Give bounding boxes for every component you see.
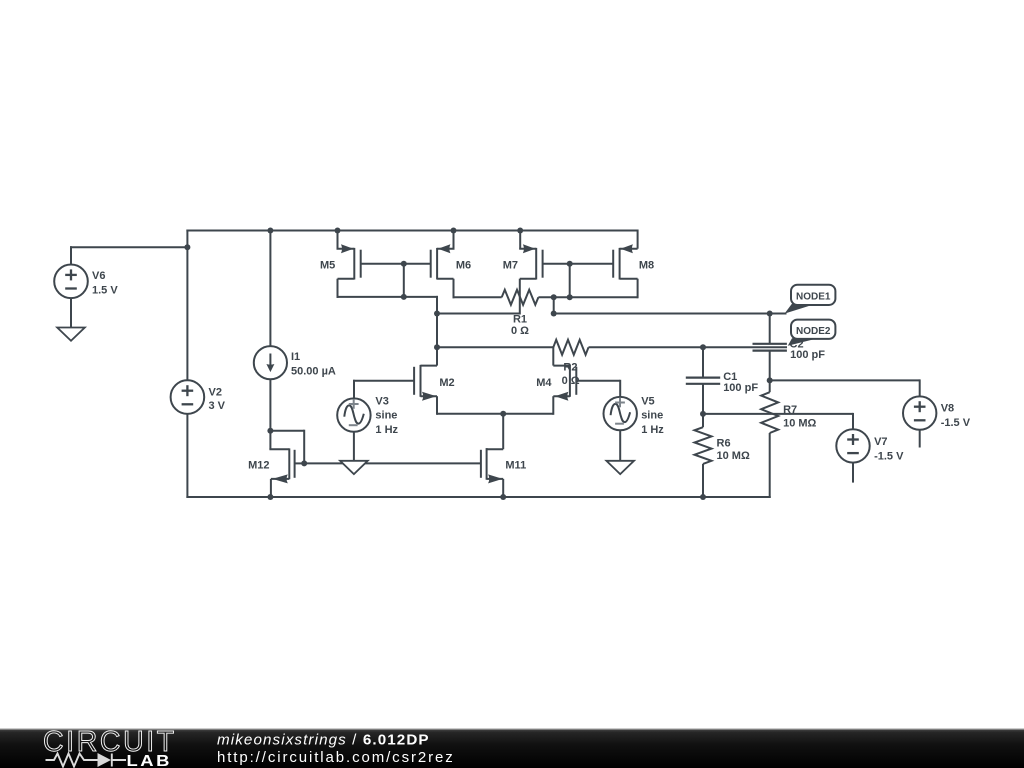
- transistor M7 source arrow: [523, 244, 535, 253]
- wire top supply rail: [186, 230, 637, 232]
- svg-text:M5: M5: [320, 260, 335, 272]
- svg-text:M4: M4: [536, 377, 552, 389]
- wire M12 drain-gate link horizontal: [270, 430, 304, 432]
- voltage source V6 1.5 V: [54, 265, 88, 299]
- svg-text:M8: M8: [639, 260, 654, 272]
- node NODE1 flag: [791, 285, 835, 305]
- transistor M8 source lead: [637, 230, 639, 249]
- transistor M2 source lead: [421, 395, 438, 397]
- logo resistor-diode glyph: [46, 754, 127, 767]
- wire M5 drain to trunk: [337, 296, 439, 298]
- junction M11 source on rail: [500, 494, 506, 500]
- svg-text:V5: V5: [641, 396, 654, 408]
- capacitor C2 bottom lead: [769, 351, 771, 381]
- wire I1 top: [269, 231, 271, 347]
- transistor M2 source arrow: [422, 392, 436, 401]
- junction trunk lower: [434, 344, 440, 350]
- transistor M8 gate bar: [612, 250, 614, 278]
- wire M2/M4 sources to M11: [437, 413, 553, 415]
- footer bar: [0, 729, 1024, 768]
- transistor M8 drain lead: [620, 278, 638, 280]
- transistor M11 drain lead: [502, 413, 504, 449]
- wire M7/M8 gate link: [543, 263, 614, 265]
- capacitor C2 100 pF: [753, 343, 787, 345]
- transistor M4 gate bar: [575, 367, 577, 395]
- svg-text:100 pF: 100 pF: [790, 349, 825, 361]
- transistor M4 drain lead: [552, 346, 554, 365]
- capacitor C1 top lead: [702, 347, 704, 377]
- wire R6/C1 node to V7+: [703, 413, 853, 415]
- ground below V5: [606, 461, 634, 474]
- svg-text:sine: sine: [375, 410, 397, 422]
- voltage source V2 3 V: [171, 380, 205, 414]
- svg-text:0 Ω: 0 Ω: [511, 325, 529, 337]
- wire M5/M6 gate link: [361, 263, 431, 265]
- transistor M5 source lead: [337, 231, 339, 249]
- svg-text:R1: R1: [513, 314, 527, 326]
- transistor M12 channel bar: [288, 448, 290, 479]
- svg-text:V7: V7: [874, 436, 887, 448]
- wire gate tie vertical: [403, 264, 405, 297]
- wire I1 bottom: [269, 379, 271, 430]
- svg-text:M6: M6: [456, 260, 471, 272]
- svg-text:10 MΩ: 10 MΩ: [717, 450, 750, 462]
- wire V2- down to bottom rail: [186, 414, 188, 498]
- junction R1 right node A: [551, 294, 557, 300]
- transistor M7 source lead: [519, 231, 521, 249]
- transistor M11 source arrow: [488, 474, 503, 483]
- transistor M12 source arrow: [272, 474, 287, 483]
- svg-text:R6: R6: [717, 437, 731, 449]
- svg-text:V2: V2: [209, 386, 222, 398]
- wire trunk to R2: [437, 346, 553, 348]
- transistor M11 source lead: [487, 478, 504, 480]
- wire M12 drain-gate link vertical: [303, 430, 305, 464]
- wire R7 top node to V8+: [770, 379, 920, 381]
- svg-text:NODE1: NODE1: [796, 292, 831, 303]
- junction M7 source on rail: [517, 228, 523, 234]
- node NODE2 flag: [791, 320, 835, 339]
- svg-text:-1.5 V: -1.5 V: [941, 417, 971, 429]
- wire V8 top vertical: [919, 379, 921, 396]
- resistor R2 0 Ohm: [553, 340, 588, 355]
- junction M12 gate wire: [301, 460, 307, 466]
- junction R6 top: [700, 411, 706, 417]
- resistor R1 0 Ohm: [502, 290, 539, 305]
- wire V6- to ground: [70, 298, 72, 327]
- transistor M2 channel bar: [420, 365, 422, 397]
- resistor R6 10 MOhm: [695, 427, 712, 464]
- svg-text:mikeonsixstrings / 6.012DP: mikeonsixstrings / 6.012DP: [217, 732, 430, 749]
- node NODE2 pointer: [788, 338, 814, 346]
- resistor R7 bottom lead: [769, 433, 771, 498]
- svg-text:R2: R2: [563, 361, 577, 373]
- junction R6 bottom on rail: [700, 494, 706, 500]
- svg-text:3 V: 3 V: [209, 400, 226, 412]
- junction M12 source on rail: [267, 494, 273, 500]
- svg-text:I1: I1: [291, 351, 300, 363]
- svg-text:1 Hz: 1 Hz: [641, 424, 664, 436]
- svg-text:NODE2: NODE2: [796, 326, 831, 337]
- svg-text:M12: M12: [248, 460, 269, 472]
- current source I1 50.00 uA: [254, 346, 287, 379]
- svg-text:http://circuitlab.com/csr2rez: http://circuitlab.com/csr2rez: [217, 749, 455, 766]
- wire V7- stub: [852, 463, 854, 483]
- transistor M8 channel bar: [619, 248, 621, 280]
- transistor M4 source lead: [553, 395, 570, 397]
- wire V6 top stub: [70, 246, 72, 264]
- capacitor C2 top lead: [769, 314, 771, 344]
- junction R1 right node B: [567, 294, 573, 300]
- junction M5 gate-drain tie: [401, 261, 407, 267]
- resistor R7 top lead: [769, 380, 771, 392]
- svg-text:50.00 µA: 50.00 µA: [291, 365, 336, 377]
- junction M5 source on rail: [335, 228, 341, 234]
- wire M2/M7 drain node: [437, 313, 520, 315]
- transistor M6 drain lead: [437, 278, 453, 280]
- junction NODE1 wire left: [551, 311, 557, 317]
- node NODE1 pointer: [785, 303, 815, 313]
- wire M2 gate to V3+: [353, 380, 355, 399]
- transistor M2 drain lead: [421, 365, 438, 367]
- voltage source V7 -1.5 V: [836, 429, 869, 462]
- svg-text:LAB: LAB: [127, 751, 172, 768]
- junction V6/V2 rail: [184, 244, 190, 250]
- wire node vertical R1-to-NODE1 wire: [553, 297, 555, 313]
- transistor M6 source arrow: [438, 244, 450, 253]
- wire NODE1 net: [554, 313, 787, 315]
- svg-text:sine: sine: [641, 410, 663, 422]
- transistor M11 channel bar: [486, 448, 488, 480]
- wire left rail from top rail down to V2+: [186, 230, 188, 381]
- junction M11 drain: [500, 411, 506, 417]
- junction on M5 drain wire: [401, 294, 407, 300]
- svg-text:C1: C1: [723, 371, 737, 383]
- voltage source V3 sine: [337, 398, 370, 431]
- wire gate tie vertical to R1 node: [569, 264, 571, 298]
- transistor M11 gate bar: [480, 450, 482, 478]
- junction I1/M12 drain: [267, 428, 273, 434]
- svg-text:1.5 V: 1.5 V: [92, 285, 118, 297]
- wire M4 gate to V5+: [619, 380, 621, 397]
- transistor M5 gate bar: [360, 250, 362, 278]
- junction I1 top on rail: [267, 228, 273, 234]
- voltage source V8 -1.5 V: [903, 396, 936, 429]
- wire V7 top vertical: [852, 413, 854, 429]
- wire R1 right to M8 drain: [538, 296, 637, 298]
- svg-text:0 Ω: 0 Ω: [562, 375, 580, 387]
- svg-text:1 Hz: 1 Hz: [375, 424, 398, 436]
- ground below V6: [57, 328, 85, 341]
- wire gate bias M12 to M11: [304, 462, 481, 464]
- transistor M4 channel bar: [569, 365, 571, 397]
- junction trunk upper: [434, 311, 440, 317]
- svg-text:-1.5 V: -1.5 V: [874, 450, 904, 462]
- ground below V3: [340, 461, 368, 474]
- transistor M6 channel bar: [436, 248, 438, 280]
- junction R7 top: [767, 377, 773, 383]
- svg-text:V3: V3: [375, 396, 388, 408]
- wire R2 right to C2: [589, 346, 788, 348]
- transistor M7 channel bar: [535, 248, 537, 280]
- wire V5- to ground: [619, 430, 621, 461]
- resistor R6 top lead: [702, 414, 704, 427]
- transistor M7 drain lead: [520, 278, 536, 280]
- transistor M4 source arrow: [555, 392, 569, 401]
- junction M7/M8 gate tie: [567, 261, 573, 267]
- wire V8- stub: [919, 430, 921, 448]
- transistor M12 gate lead: [295, 462, 305, 464]
- transistor M8 source arrow: [621, 244, 633, 253]
- capacitor C1 bottom lead: [702, 384, 704, 414]
- junction C1 top: [700, 344, 706, 350]
- transistor M6 gate bar: [430, 250, 432, 278]
- transistor M12 drain lead: [269, 430, 271, 450]
- transistor M7 gate bar: [542, 250, 544, 278]
- transistor M5 source arrow: [341, 244, 353, 253]
- wire trunk vertical: [436, 296, 438, 366]
- wire bottom rail: [186, 496, 770, 498]
- transistor M2 gate bar: [413, 367, 415, 395]
- capacitor C1 100 pF: [686, 377, 720, 379]
- transistor M12 gate bar: [294, 450, 296, 478]
- resistor R6 bottom lead: [702, 464, 704, 498]
- transistor M4 gate lead: [576, 380, 620, 382]
- wire V6+ to left rail: [70, 246, 187, 248]
- svg-text:V6: V6: [92, 270, 105, 282]
- transistor M2 gate lead: [353, 380, 414, 382]
- svg-text:M11: M11: [505, 460, 526, 472]
- voltage source V5 sine: [604, 397, 637, 430]
- transistor M6 source lead: [453, 231, 455, 249]
- wire V3- to ground: [353, 432, 355, 462]
- svg-text:M7: M7: [503, 260, 518, 272]
- svg-text:100 pF: 100 pF: [723, 382, 758, 394]
- junction C2 top: [767, 311, 773, 317]
- junction M6 source on rail: [451, 228, 457, 234]
- transistor M12 source lead: [271, 478, 289, 480]
- svg-text:10 MΩ: 10 MΩ: [783, 418, 816, 430]
- transistor M5 channel bar: [353, 248, 355, 280]
- svg-text:M2: M2: [439, 377, 454, 389]
- svg-text:V8: V8: [941, 403, 954, 415]
- resistor R7 10 MOhm: [761, 392, 778, 433]
- transistor M5 drain lead: [338, 278, 355, 280]
- wire M6 drain to R1: [453, 296, 502, 298]
